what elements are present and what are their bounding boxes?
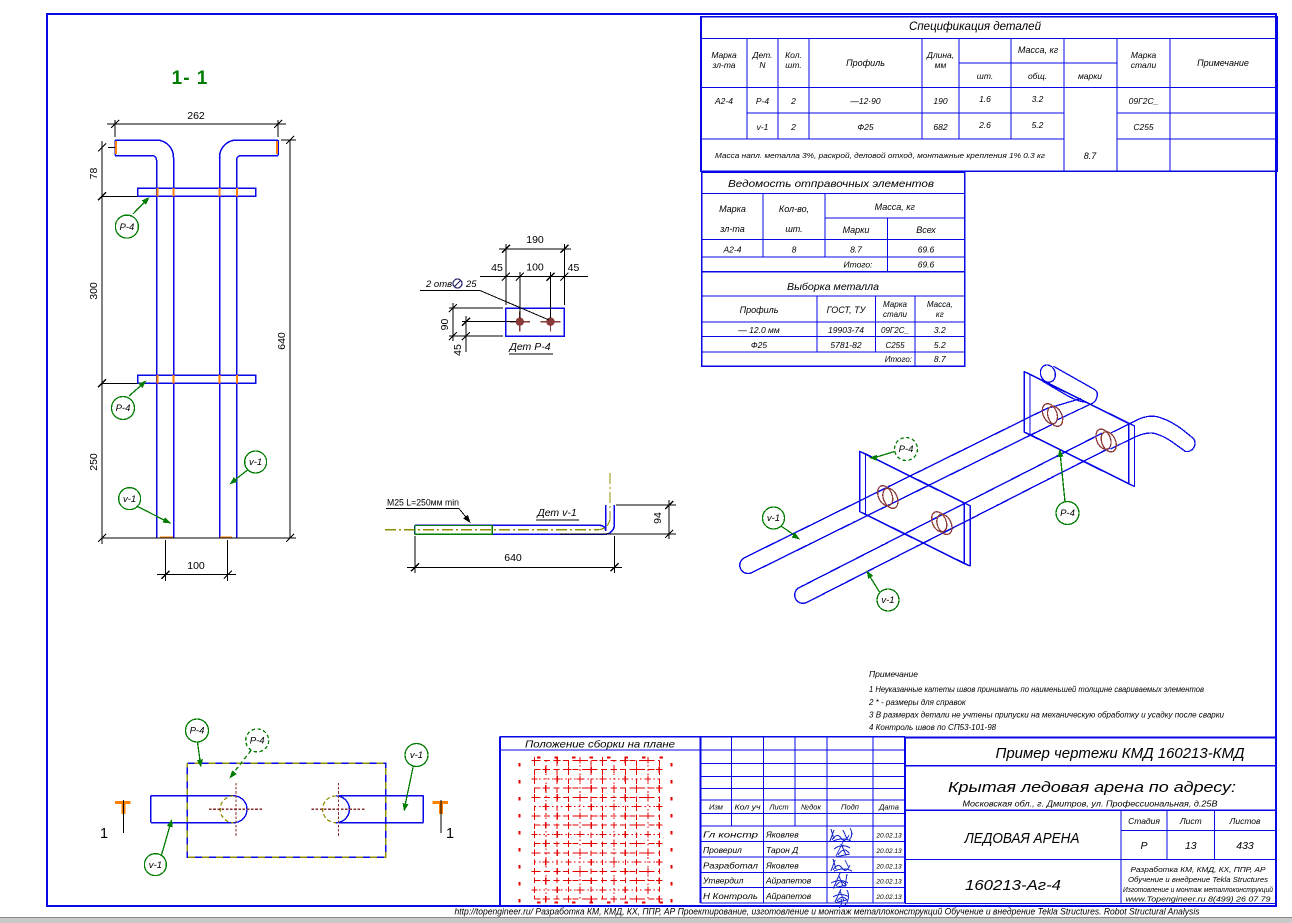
svg-text:зл-та: зл-та: [719, 224, 744, 234]
svg-text:мм: мм: [935, 60, 947, 70]
svg-text:—12·90: —12·90: [849, 96, 881, 106]
svg-text:N: N: [759, 60, 766, 70]
svg-text:Марка: Марка: [719, 204, 746, 214]
svg-text:Масса, кг: Масса, кг: [1018, 45, 1059, 55]
detail v-1 rod: [415, 505, 606, 531]
svg-text:19903-74: 19903-74: [828, 325, 864, 335]
svg-text:Р-4: Р-4: [116, 403, 131, 414]
rod v-1 #2 (3D): [799, 433, 1102, 587]
svg-text:Изм: Изм: [709, 803, 723, 812]
svg-text:Изготовление и монтаж металлок: Изготовление и монтаж металлоконструкций: [1123, 886, 1273, 894]
svg-text:v-1: v-1: [767, 513, 780, 524]
svg-text:2: 2: [790, 96, 796, 106]
svg-text:20.02.13: 20.02.13: [875, 879, 902, 886]
svg-text:8.7: 8.7: [1084, 151, 1098, 161]
signature table: [701, 737, 906, 908]
svg-text:2 * - размеры для справок: 2 * - размеры для справок: [868, 698, 967, 707]
dimension 190 (detail): [505, 244, 507, 305]
svg-text:Выборка металла: Выборка металла: [787, 281, 879, 293]
metal summary table (Выборка металла): [702, 272, 965, 367]
svg-text:Р-4: Р-4: [756, 96, 770, 106]
svg-text:Обучение и внедрение Tekla St: Обучение и внедрение Tekla Structures: [1128, 876, 1269, 884]
svg-text:2: 2: [790, 122, 796, 132]
svg-text:300: 300: [88, 282, 100, 300]
svg-text:v-1: v-1: [757, 122, 769, 132]
callout Р-4 lower: [129, 382, 145, 396]
left dimension chain 78/300/250: [108, 147, 115, 149]
svg-text:шт.: шт.: [785, 60, 801, 70]
svg-text:160213-Аг-4: 160213-Аг-4: [965, 878, 1061, 894]
svg-text:Всех: Всех: [916, 225, 936, 235]
svg-text:2.6: 2.6: [978, 120, 991, 130]
rod v-1 #1 (3D): [744, 408, 1049, 558]
svg-text:2 отв: 2 отв: [425, 279, 452, 290]
svg-text:Дет Р-4: Дет Р-4: [508, 341, 550, 353]
svg-text:Масса, кг: Масса, кг: [875, 202, 916, 212]
svg-text:Кол.: Кол.: [785, 50, 802, 60]
svg-text:Стадия: Стадия: [1128, 816, 1160, 826]
svg-text:09Г2С_: 09Г2С_: [881, 326, 909, 335]
svg-text:кг: кг: [936, 310, 944, 319]
svg-text:1.6: 1.6: [979, 94, 991, 104]
svg-text:Р-4: Р-4: [1060, 508, 1075, 519]
svg-text:Листов: Листов: [1229, 816, 1262, 826]
svg-text:Тарон Д: Тарон Д: [766, 845, 798, 855]
svg-text:8: 8: [792, 245, 797, 255]
svg-text:v-1: v-1: [410, 750, 423, 761]
svg-text:Разработал: Разработал: [703, 860, 758, 870]
dimension 94 (detail v-1): [616, 504, 676, 506]
callout v-1 left (3D): [781, 526, 797, 537]
svg-text:Айрапетов: Айрапетов: [765, 876, 812, 886]
svg-text:8.7: 8.7: [934, 354, 946, 364]
svg-text:стали: стали: [883, 310, 907, 319]
svg-text:Яковлев: Яковлев: [765, 830, 799, 840]
svg-text:3.2: 3.2: [934, 325, 946, 335]
dimension 45-100-45 (detail): [519, 272, 521, 318]
svg-text:шт.: шт.: [977, 71, 993, 81]
svg-text:Марка: Марка: [711, 50, 737, 60]
svg-text:Длина,: Длина,: [926, 50, 954, 60]
signatures: [830, 828, 852, 908]
svg-text:Р-4: Р-4: [120, 222, 135, 233]
svg-text:Проверил: Проверил: [703, 845, 742, 855]
svg-text:Утвердил: Утвердил: [702, 876, 744, 886]
svg-text:190: 190: [526, 234, 544, 246]
svg-text:Н Контроль: Н Контроль: [703, 891, 758, 901]
svg-text:262: 262: [187, 110, 205, 122]
svg-text:Лист: Лист: [768, 803, 788, 812]
svg-text:3.2: 3.2: [1032, 94, 1044, 104]
plan view: rod arms v-1: [151, 795, 236, 797]
svg-text:Р-4: Р-4: [250, 736, 265, 747]
holes 2x d25 (detail Р-4): [516, 318, 524, 326]
svg-text:Профиль: Профиль: [846, 58, 885, 68]
svg-text:Дата: Дата: [878, 803, 899, 812]
centreline (detail v-1): [385, 529, 598, 531]
dimension 640 (detail v-1): [414, 536, 416, 573]
dimension 262: [114, 120, 116, 137]
svg-text:Р: Р: [1140, 840, 1147, 852]
svg-text:1- 1: 1- 1: [172, 68, 209, 89]
svg-text:общ.: общ.: [1028, 71, 1047, 81]
svg-text:100: 100: [526, 262, 544, 274]
svg-text:v-1: v-1: [149, 860, 162, 871]
svg-text:Московская обл., г. Дмитров, у: Московская обл., г. Дмитров, ул. Професс…: [963, 799, 1218, 809]
svg-text:4 Контроль швов по СП53-101-9: 4 Контроль швов по СП53-101-98: [869, 723, 997, 732]
svg-text:25: 25: [465, 279, 477, 290]
callout Р-4 far (3D): [1060, 452, 1065, 502]
svg-text:Масса,: Масса,: [927, 300, 953, 309]
svg-text:А2-4: А2-4: [714, 96, 733, 106]
svg-text:Марка: Марка: [1131, 50, 1157, 60]
svg-text:v-1: v-1: [249, 457, 262, 468]
svg-text:Марка: Марка: [883, 300, 907, 309]
plan view: holes: [234, 796, 247, 823]
svg-text:1: 1: [446, 826, 454, 842]
svg-text:20.02.13: 20.02.13: [875, 833, 902, 840]
svg-text:Примечание: Примечание: [1197, 58, 1249, 68]
hole rings (3D): [875, 483, 896, 508]
svg-text:Кол-во,: Кол-во,: [779, 204, 809, 214]
svg-text:78: 78: [88, 168, 100, 180]
rod v-1 left (section): [115, 140, 174, 538]
svg-text:Дет v-1: Дет v-1: [536, 507, 576, 519]
svg-text:69.6: 69.6: [918, 245, 935, 255]
svg-text:С255: С255: [885, 341, 905, 350]
near plate Р-4 (3D): [860, 451, 965, 563]
svg-text:Итого:: Итого:: [885, 355, 912, 364]
svg-text:Разработка КМ, КМД, КХ, ППР, А: Разработка КМ, КМД, КХ, ППР, АР: [1131, 865, 1266, 874]
plan view: plate Р-4 hidden (dashed): [187, 763, 385, 857]
svg-text:90: 90: [439, 319, 451, 331]
svg-text:ГОСТ, ТУ: ГОСТ, ТУ: [827, 305, 867, 315]
plan callout Р-4 dashed: [231, 751, 251, 777]
thread zone M25 (green): [415, 525, 492, 534]
callout Р-4 near (3D): [875, 452, 895, 458]
callout v-1 bottom (3D): [868, 574, 880, 593]
svg-text:5.2: 5.2: [934, 340, 946, 350]
red position grid: [519, 757, 673, 904]
svg-text:94: 94: [652, 512, 664, 524]
svg-text:45: 45: [568, 262, 580, 274]
plate Р-4 upper (section): [138, 188, 256, 196]
svg-text:Р-4: Р-4: [899, 444, 914, 455]
svg-text:Дет.: Дет.: [752, 50, 773, 60]
svg-text:13: 13: [1185, 840, 1197, 852]
svg-text:стали: стали: [1131, 60, 1157, 70]
shipping elements table (Ведомость отправочных элементов): [702, 172, 965, 271]
svg-text:Лист: Лист: [1179, 816, 1202, 826]
dimension 45 vertical (detail): [462, 321, 516, 323]
callout Р-4 upper: [133, 199, 148, 215]
svg-text:Пример чертежи КМД 160213-КМД: Пример чертежи КМД 160213-КМД: [996, 746, 1245, 762]
dimension 640: [281, 139, 296, 141]
svg-text:www.Topengineer.ru 8(49: www.Topengineer.ru 8(499) 26 07 79: [1126, 897, 1271, 904]
svg-text:190: 190: [933, 96, 947, 106]
svg-text:640: 640: [276, 332, 288, 350]
svg-text:Гл констр: Гл констр: [703, 830, 758, 840]
svg-text:зл-та: зл-та: [711, 60, 735, 70]
svg-text:Яковлев: Яковлев: [765, 860, 799, 870]
svg-text:8.7: 8.7: [850, 245, 862, 255]
svg-text:Ведомость отправочных элементо: Ведомость отправочных элементов: [728, 178, 935, 190]
svg-text:Итого:: Итого:: [844, 260, 874, 270]
svg-text:5781-82: 5781-82: [830, 340, 861, 350]
svg-text:20.02.13: 20.02.13: [875, 863, 902, 870]
rod v-1 right (section): [220, 140, 279, 538]
svg-text:Кол уч: Кол уч: [735, 803, 761, 812]
3D isometric view: [740, 363, 1195, 603]
svg-text:ЛЕДОВАЯ АРЕНА: ЛЕДОВАЯ АРЕНА: [964, 830, 1080, 847]
svg-text:v-1: v-1: [123, 494, 136, 505]
plan callout v-1 left: [162, 822, 172, 855]
svg-text:А2-4: А2-4: [723, 245, 742, 255]
svg-text:Положение сборки на плане: Положение сборки на плане: [525, 739, 675, 751]
svg-text:433: 433: [1236, 840, 1254, 852]
detail Р-4 plate: [506, 308, 565, 336]
bottom window strip: [0, 918, 1292, 923]
svg-text:45: 45: [491, 262, 503, 274]
dimension 100: [165, 540, 167, 581]
far plate Р-4 (3D): [1024, 372, 1129, 484]
svg-text:С255: С255: [1133, 122, 1154, 132]
svg-text:http://topengineer.ru/ Разраб: http://topengineer.ru/ Разработка КМ, КМ…: [455, 907, 1200, 917]
svg-text:Ф25: Ф25: [857, 122, 873, 132]
svg-text:Масса напл. металла 3%, раскро: Масса напл. металла 3%, раскрой, деловой…: [715, 152, 1046, 160]
hook of rod v-1 #2 (3D): [1111, 416, 1196, 451]
svg-text:09Г2С_: 09Г2С_: [1129, 96, 1159, 106]
svg-text:20.02.13: 20.02.13: [875, 894, 902, 901]
svg-text:Спецификация деталей: Спецификация деталей: [909, 21, 1042, 33]
svg-text:Крытая ледовая арена по адресу: Крытая ледовая арена по адресу:: [948, 779, 1236, 796]
svg-text:682: 682: [933, 122, 947, 132]
svg-text:Подп: Подп: [841, 803, 859, 812]
svg-text:марки: марки: [1078, 71, 1102, 81]
svg-text:M25 L=250мм min: M25 L=250мм min: [387, 498, 459, 509]
hook of rod v-1 #1 (3D): [1054, 366, 1098, 420]
svg-text:45: 45: [452, 344, 464, 356]
svg-text:250: 250: [88, 453, 100, 471]
plate Р-4 lower (section): [138, 375, 256, 383]
svg-text:Примечание: Примечание: [869, 669, 918, 679]
svg-text:1: 1: [100, 826, 108, 842]
svg-text:шт.: шт.: [785, 224, 802, 234]
callout v-1 left: [138, 507, 170, 523]
plan callout Р-4 solid: [198, 743, 201, 765]
svg-text:Р-4: Р-4: [190, 726, 205, 737]
svg-text:69.6: 69.6: [918, 260, 935, 270]
svg-text:Айрапетов: Айрапетов: [765, 891, 812, 901]
dimension 90 (detail): [449, 307, 503, 309]
panel Положение сборки на плане: [499, 737, 501, 906]
svg-text:№док: №док: [801, 803, 821, 812]
specification table (Спецификация деталей): [701, 17, 1277, 171]
svg-text:Профиль: Профиль: [740, 305, 779, 315]
svg-text:1 Неуказанные катеты швов при: 1 Неуказанные катеты швов принимать по н…: [869, 685, 1204, 694]
svg-text:20.02.13: 20.02.13: [875, 848, 902, 855]
plan view: section cut marks 1-1: [115, 801, 131, 804]
svg-text:v-1: v-1: [881, 595, 894, 606]
svg-text:Ф25: Ф25: [751, 340, 767, 350]
plan callout v-1 right: [405, 765, 414, 808]
svg-text:Марки: Марки: [843, 225, 870, 235]
title block: [905, 738, 1276, 904]
svg-text:5.2: 5.2: [1032, 120, 1044, 130]
svg-text:— 12.0 мм: — 12.0 мм: [737, 325, 780, 335]
svg-text:3 В размерах детали не учтены: 3 В размерах детали не учтены припуски н…: [869, 711, 1225, 720]
callout v-1 right: [231, 470, 248, 483]
svg-text:100: 100: [187, 560, 205, 572]
svg-text:640: 640: [504, 552, 522, 564]
weld marks orange (section): [156, 188, 158, 196]
